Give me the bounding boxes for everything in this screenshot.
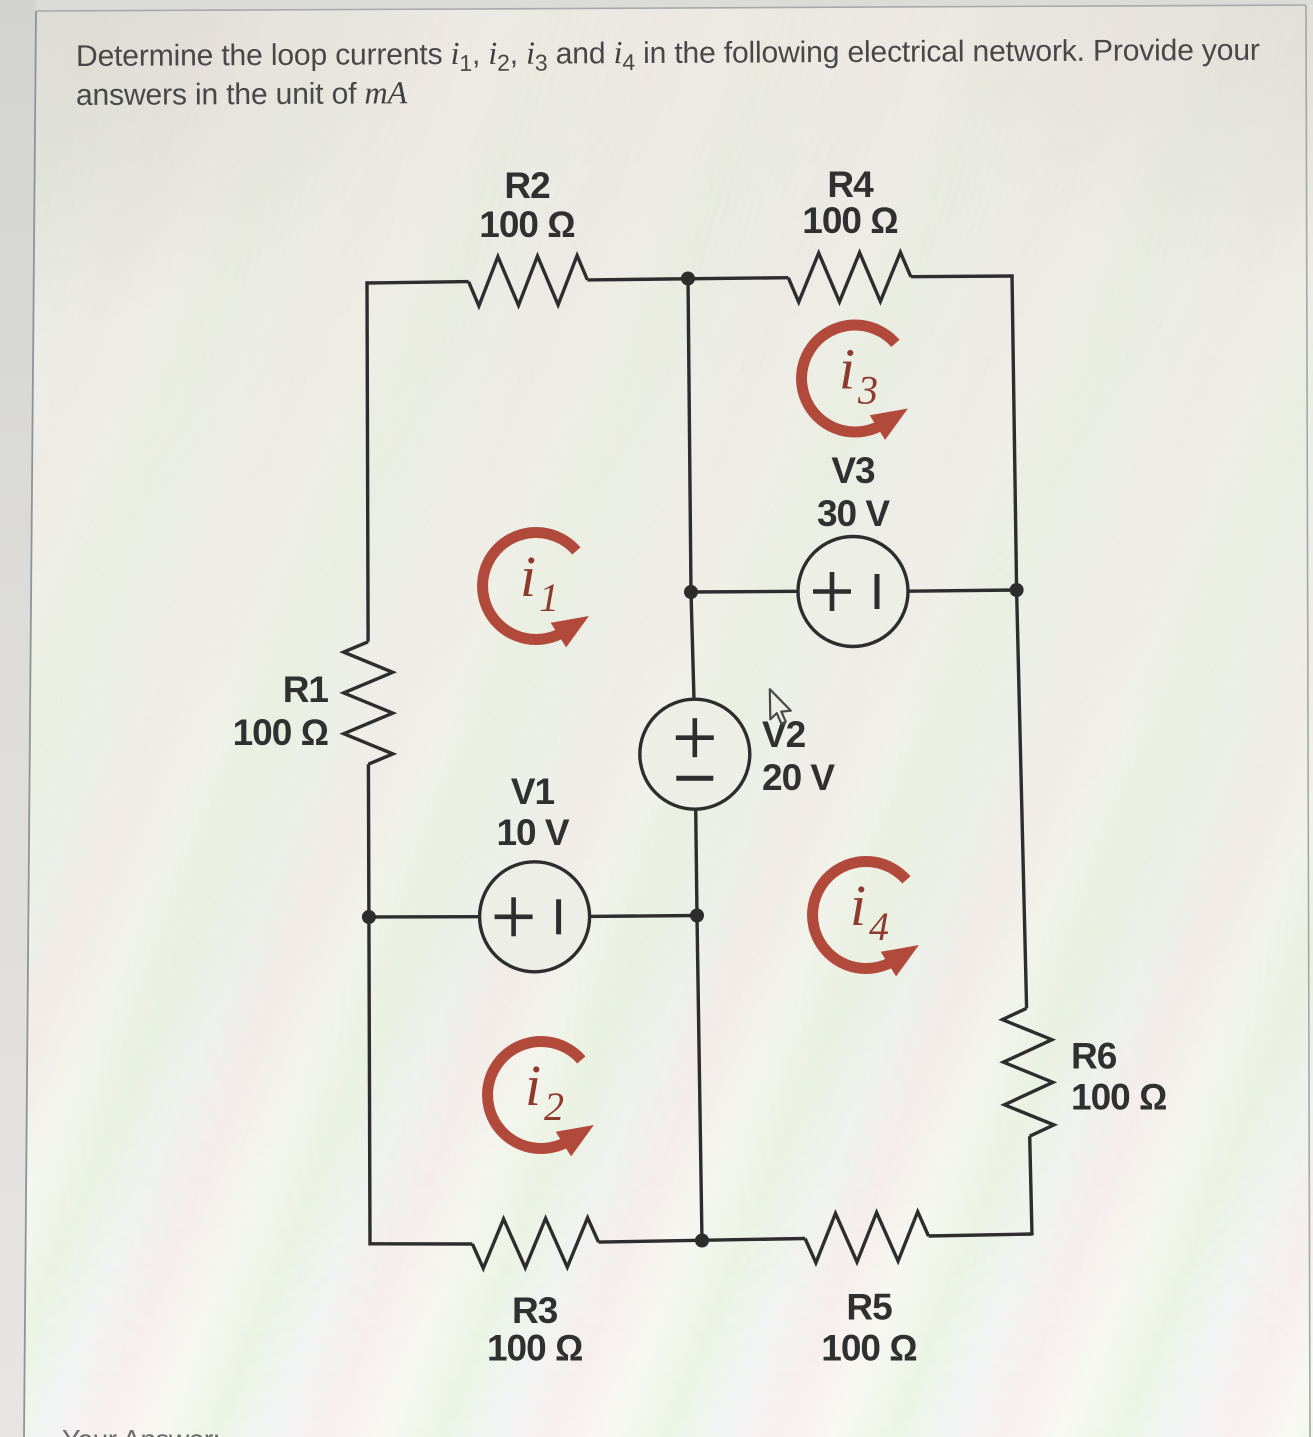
wire top-mid <box>587 278 788 280</box>
wire right upper <box>1012 275 1017 591</box>
svg-text:i: i <box>850 873 866 938</box>
wire left lower <box>368 764 370 1245</box>
svg-text:i: i <box>839 337 855 402</box>
wire middle V2-to-V1 <box>696 809 697 916</box>
svg-text:100 Ω: 100 Ω <box>802 200 897 241</box>
resistor R4 <box>788 252 911 302</box>
wire left upper <box>367 281 368 642</box>
svg-text:R2: R2 <box>504 165 550 206</box>
wire right lower <box>1030 1136 1032 1235</box>
wire right mid <box>1017 590 1027 1008</box>
svg-text:i: i <box>520 544 536 609</box>
loop current i1 <box>483 533 589 648</box>
mouse cursor <box>770 689 791 724</box>
node top middle <box>681 272 695 286</box>
svg-text:20 V: 20 V <box>762 757 835 798</box>
svg-text:R6: R6 <box>1071 1036 1117 1077</box>
svg-text:100 Ω: 100 Ω <box>1071 1077 1166 1118</box>
left margin strip <box>0 0 36 1437</box>
svg-text:R3: R3 <box>512 1290 558 1331</box>
svg-text:2: 2 <box>544 1084 564 1129</box>
node middle at V3 <box>684 585 698 599</box>
svg-text:i: i <box>525 1053 541 1118</box>
loop current i3 <box>802 325 908 440</box>
svg-text:100 Ω: 100 Ω <box>233 712 328 753</box>
wire middle lower <box>697 916 702 1243</box>
wire V1 branch right <box>590 914 697 918</box>
wire V3 branch right <box>908 590 1017 591</box>
node left at V1 <box>362 910 376 924</box>
svg-text:Determine the loop currents i1: Determine the loop currents i1, i2, i3 a… <box>76 31 1260 78</box>
svg-text:100 Ω: 100 Ω <box>821 1328 916 1369</box>
resistor R3 <box>472 1218 598 1269</box>
svg-text:R1: R1 <box>283 669 329 710</box>
svg-text:V3: V3 <box>831 450 875 491</box>
svg-text:30 V: 30 V <box>817 493 890 534</box>
svg-text:answers in the unit of mA: answers in the unit of mA <box>76 74 408 112</box>
svg-text:V1: V1 <box>511 771 555 812</box>
wire bottom-right <box>929 1234 1033 1236</box>
loop current i2 <box>488 1042 594 1157</box>
wire top-left <box>367 282 469 283</box>
svg-text:R5: R5 <box>846 1286 892 1327</box>
resistor R6 <box>1002 1008 1054 1136</box>
node bottom middle <box>695 1234 709 1248</box>
resistor R5 <box>805 1212 928 1263</box>
wire bottom-left <box>370 1242 472 1246</box>
border left <box>24 11 36 1437</box>
svg-text:100 Ω: 100 Ω <box>487 1328 582 1369</box>
wire V3 branch left <box>691 590 798 594</box>
svg-text:4: 4 <box>869 904 889 949</box>
header line 1 <box>76 31 1260 78</box>
svg-text:3: 3 <box>857 368 878 413</box>
top margin strip <box>36 0 1313 11</box>
svg-text:Your Answer:: Your Answer: <box>62 1424 220 1437</box>
resistor R2 <box>469 256 588 307</box>
border top <box>36 5 1306 11</box>
resistor R1 <box>344 642 393 764</box>
voltage source V2 20V <box>640 699 750 809</box>
node right at V3 <box>1010 583 1024 597</box>
svg-text:100 Ω: 100 Ω <box>479 204 574 245</box>
voltage source V1 10V <box>480 862 590 972</box>
wire V1 branch left <box>369 915 480 919</box>
border right <box>1306 5 1310 1437</box>
loop current i4 <box>813 862 919 977</box>
header line 2 <box>76 74 408 112</box>
wire middle V3-to-V2 <box>691 592 694 700</box>
wire top-right <box>911 274 1014 278</box>
svg-text:10 V: 10 V <box>496 812 569 853</box>
svg-text:R4: R4 <box>827 164 874 205</box>
voltage source V3 30V <box>798 537 908 647</box>
wire middle upper <box>688 277 691 593</box>
svg-text:1: 1 <box>539 575 559 620</box>
node middle at V1 <box>690 909 704 923</box>
wire bottom-mid <box>599 1239 806 1243</box>
